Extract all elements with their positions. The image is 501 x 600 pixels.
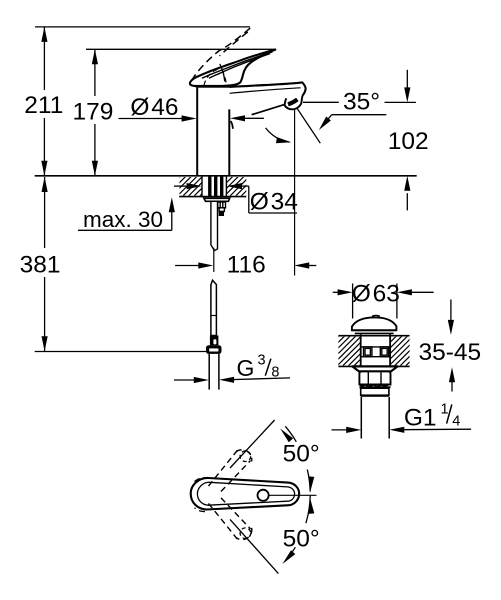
vertical reference line from spout outlet [294,105,296,275]
raised lever position (dashed) [190,28,250,84]
lever handle side view [190,50,275,87]
handle hole [258,490,269,501]
dimension Ø34 arrows and leader [174,186,297,213]
supply hose blade [211,280,217,335]
countertop lines at waste [338,336,409,367]
handle swung down 50 degrees (dashed) [195,498,252,540]
aerator / mousseur [285,96,303,110]
dimension 179 line with arrows [94,49,96,176]
dimension 211 line with arrows [43,27,45,176]
gap line under lever (black bar) [196,85,230,88]
spout top inner line [230,88,301,94]
svg-text:1: 1 [441,402,449,418]
hidden cartridge dome under lever (dashed) [204,68,226,85]
spray angle arc with arrow [266,128,290,142]
G3/8 threaded pipe [209,354,219,390]
extension line at hose nut bottom (381) [35,351,206,353]
svg-text:Ø34: Ø34 [250,189,298,216]
svg-text:3: 3 [258,352,266,368]
svg-text:102: 102 [388,128,429,155]
mounting washer plate [204,198,230,201]
dimension 102 arrows [406,70,408,211]
svg-text:50°: 50° [283,440,320,467]
waste collar [361,388,389,395]
spout bottom edge [252,105,285,115]
upper 50 degree arc with arrows [285,426,296,442]
svg-text:116: 116 [227,251,266,278]
waste flange washer [352,366,397,371]
50 degree ray upper [230,420,275,468]
svg-text:35-45: 35-45 [418,339,481,366]
dimension G1 1/4 arrows [332,428,472,431]
outlet height line (left of 35 label) [303,101,339,103]
threaded shank outline [202,176,226,196]
waste locknut [359,371,390,384]
dimension 116 arrows [175,265,316,267]
svg-text:381: 381 [20,252,61,279]
lower 50 degree arc with arrows [306,496,310,523]
lever edge inner line 1 [202,52,273,78]
faucet body right edge [228,109,230,175]
svg-text:Ø46: Ø46 [130,94,178,121]
svg-text:4: 4 [452,414,460,430]
handle top view outline [191,478,299,510]
dimension Ø46 arrows [119,117,264,119]
dimension 35-45 arrows [451,300,452,392]
spout-body fillet [231,121,233,129]
lever edge inner line 2 [209,54,270,79]
handle centreline [269,494,317,496]
pop-up rod upper section [211,201,218,250]
spray direction line 35 degrees [295,105,320,143]
svg-text:50°: 50° [283,526,320,553]
svg-text:G: G [236,355,254,381]
hose connection nut [206,345,222,354]
waste plug body [361,334,390,366]
leader from 35 label to spray line [324,115,332,125]
svg-text:179: 179 [73,99,114,126]
lever front inner curve [220,64,225,82]
underline of 35 degree label [332,114,387,116]
dimension G3/8 arrows [174,378,290,380]
50 degree ray lower [230,519,278,573]
dimension 381 line with arrows [44,177,46,351]
svg-text:211: 211 [24,92,63,119]
countertop surface line [35,175,417,177]
faucet centreline extension [213,248,215,272]
svg-text:Ø63: Ø63 [352,281,400,308]
countertop section bottom line (faucet) [179,196,246,198]
svg-text:G1: G1 [404,405,437,432]
svg-text:8: 8 [271,365,279,381]
handle top view inner line [197,482,294,505]
max. 30 leader with arrow [78,208,172,230]
svg-text:35°: 35° [343,88,380,115]
hose valve block [210,336,219,346]
dimension Ø63 extension lines [353,284,397,319]
spout top edge with nose [229,82,305,95]
extension line at lever rest height (179) [86,48,276,50]
dimension Ø63 arrows [333,291,434,293]
pop-up waste cap [352,317,397,330]
outlet height line (right of 35 label, 102 top tick) [385,101,416,103]
waste tailpipe G1 1/4 [361,397,389,439]
faucet body left edge [196,88,198,176]
svg-text:max. 30: max. 30 [83,207,163,232]
handle swung up 50 degrees (dashed) [195,450,252,492]
lift rod guide block [218,202,226,211]
threaded shank bars [208,176,223,198]
extension line at faucet max height (211) [35,26,250,28]
